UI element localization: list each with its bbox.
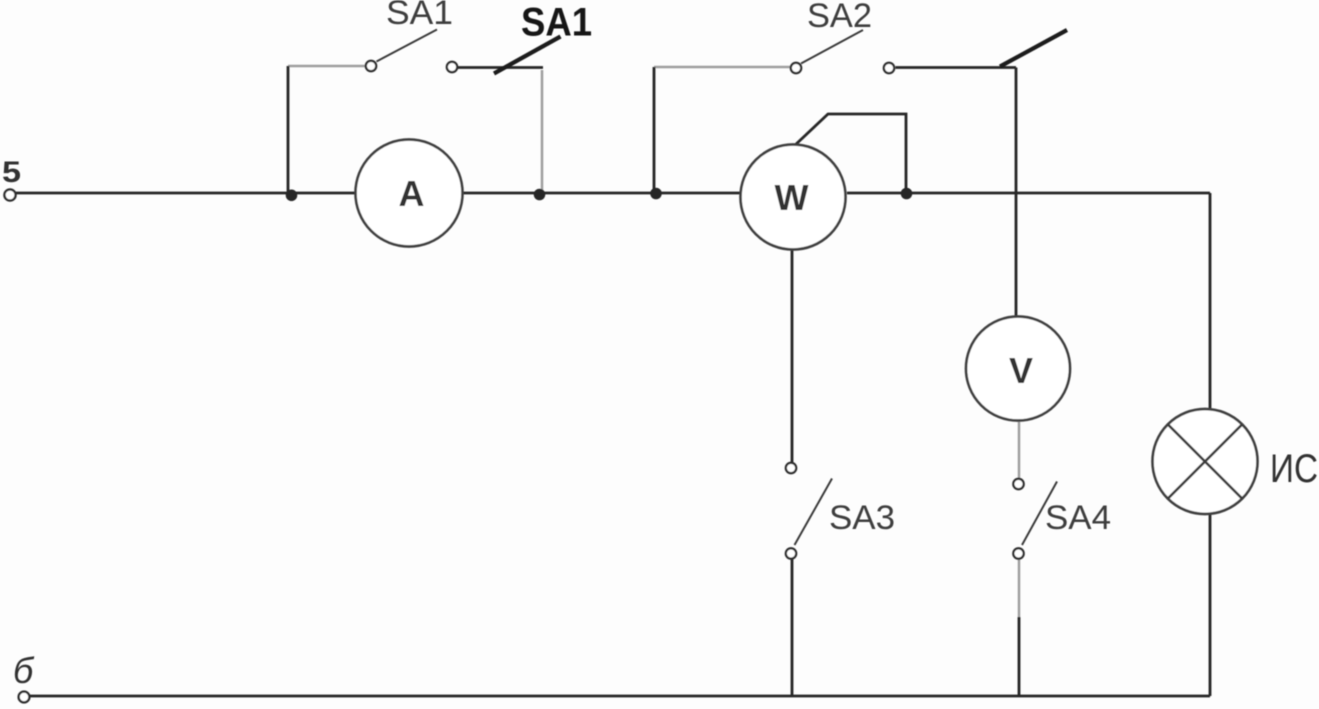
- svg-text:SA4: SA4: [1045, 499, 1111, 537]
- svg-text:W: W: [775, 177, 809, 218]
- svg-text:V: V: [1009, 350, 1033, 391]
- svg-text:SA3: SA3: [829, 499, 895, 537]
- svg-text:SA1: SA1: [386, 0, 453, 32]
- svg-text:б: б: [13, 650, 35, 691]
- svg-text:5: 5: [2, 156, 21, 189]
- svg-text:SA2: SA2: [807, 0, 872, 35]
- svg-text:A: A: [399, 173, 425, 214]
- svg-text:SA1: SA1: [521, 1, 592, 45]
- svg-text:ИС: ИС: [1270, 447, 1318, 491]
